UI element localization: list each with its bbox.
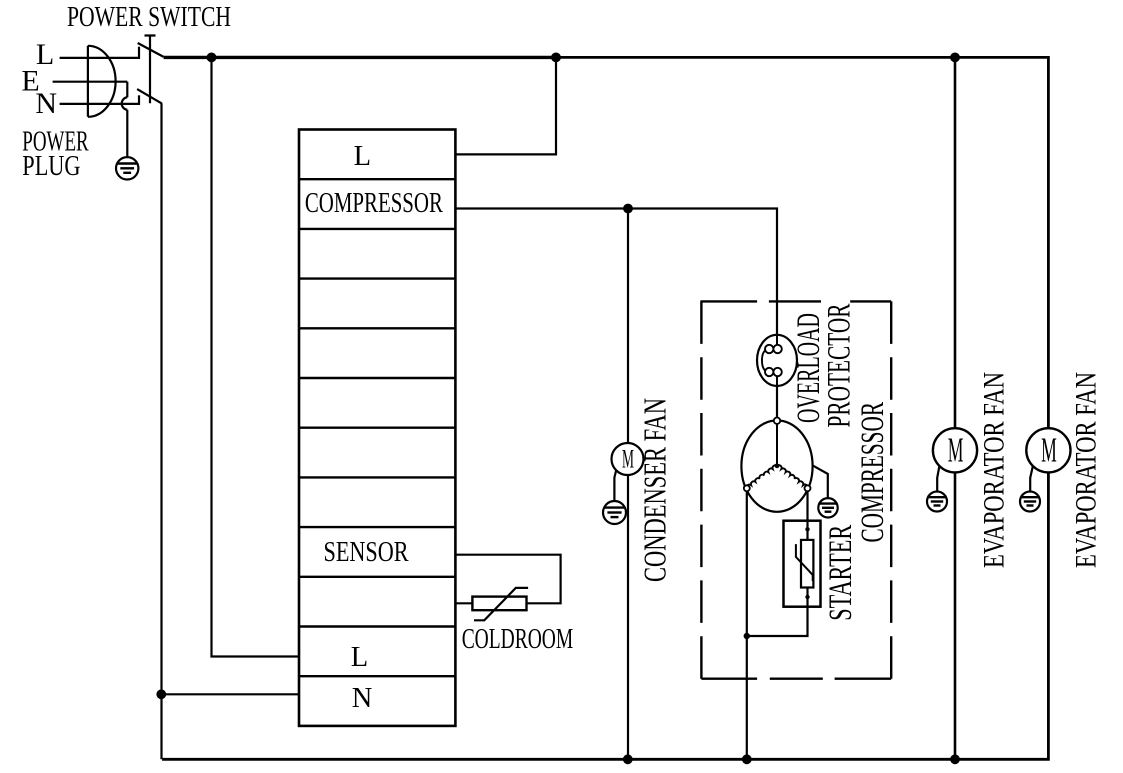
terminal block row dividers	[299, 179, 455, 676]
ground evaporator fan 2	[1020, 492, 1040, 512]
compressor motor right winding	[777, 465, 808, 488]
wire top rail thick segment (switch to L-terminal junction)	[164, 56, 556, 59]
wire starter output to main leg junction	[747, 587, 808, 636]
motor evaporator fan 1	[933, 428, 977, 472]
overload protector internal lead out	[776, 376, 778, 386]
ground condenser fan	[603, 501, 626, 524]
node compressor motor run terminal	[744, 485, 750, 491]
wire evaporator fan 1 lower	[954, 472, 957, 759]
coldroom sensor thermistor strike	[474, 588, 528, 620]
overload protector contact discs	[765, 345, 782, 376]
node junction bottom rail / compressor	[742, 754, 752, 764]
svg-text:M: M	[948, 430, 964, 469]
wire SENSOR row to coldroom thermistor right lead	[455, 555, 560, 604]
wire left vertical N feeder (switch N pole down to bottom rail)	[160, 103, 162, 759]
power switch L pole blade	[138, 43, 164, 57]
svg-text:POWER SWITCH: POWER SWITCH	[67, 2, 231, 33]
starter terminal dot top	[805, 527, 809, 531]
wire top rail right segment + right vertical upper (to evaporator fan 2 motor)	[554, 57, 1048, 428]
svg-text:EVAPORATOR FAN: EVAPORATOR FAN	[1070, 372, 1103, 568]
wire evaporator fan 1 ground branch	[937, 466, 939, 497]
starter PTC body	[801, 540, 813, 588]
svg-text:L: L	[351, 642, 368, 673]
svg-text:COLDROOM: COLDROOM	[462, 624, 574, 655]
overload protector internal lead in	[776, 335, 778, 345]
svg-text:M: M	[1041, 430, 1057, 469]
svg-text:STARTER: STARTER	[823, 525, 859, 621]
wire condenser fan ground branch	[614, 470, 616, 507]
ground power plug earth	[116, 157, 138, 179]
wire compressor case ground branch	[812, 465, 827, 503]
node junction compressor wire / condenser fan	[623, 204, 633, 214]
wire terminal L row up to top rail	[455, 57, 556, 154]
coldroom sensor thermistor body	[472, 597, 526, 611]
wire coldroom thermistor left lead	[455, 602, 473, 604]
svg-text:PROTECTOR: PROTECTOR	[822, 304, 858, 428]
svg-text:M: M	[622, 443, 634, 473]
overload protector bimetal arc	[762, 351, 765, 371]
starter terminal dot bottom	[805, 595, 809, 599]
compressor motor left winding	[747, 465, 777, 488]
starter box	[784, 521, 821, 607]
compressor motor internal lead	[776, 424, 778, 465]
node starter to main leg junction	[744, 633, 750, 639]
power switch N pole fixed contact	[138, 95, 140, 105]
power switch L pole fixed contact	[138, 47, 140, 59]
overload protector outline	[757, 335, 797, 386]
node junction top rail / terminal L	[551, 53, 561, 63]
wire N row lead from junction to terminal block	[161, 693, 299, 695]
node junction top rail / L feeder	[207, 53, 217, 63]
power plug body (D shape)	[88, 46, 116, 117]
node compressor motor top terminal	[774, 418, 780, 424]
svg-text:L: L	[354, 141, 371, 172]
wire compressor main winding left leg down to bottom rail	[746, 491, 748, 759]
terminal block outline	[299, 130, 455, 726]
ground compressor case	[818, 498, 837, 517]
node junction bottom rail / evaporator fan 1	[950, 754, 960, 764]
node junction bottom rail / condenser fan	[623, 754, 633, 764]
svg-text:N: N	[352, 683, 373, 714]
wire overload to motor node	[776, 386, 778, 418]
starter PTC strike	[796, 544, 813, 581]
node compressor motor start terminal	[805, 485, 811, 491]
wire prong E	[53, 81, 128, 83]
power switch actuator bar	[145, 36, 156, 104]
compressor enclosure dashed box right edge	[890, 301, 892, 678]
svg-text:CONDENSER FAN: CONDENSER FAN	[636, 398, 672, 582]
svg-text:N: N	[35, 87, 57, 120]
svg-text:PLUG: PLUG	[22, 151, 80, 182]
node junction top rail / evaporator fan 1	[950, 53, 960, 63]
node junction N feeder / N row	[156, 689, 166, 699]
svg-text:EVAPORATOR FAN: EVAPORATOR FAN	[977, 372, 1010, 568]
svg-text:COMPRESSOR: COMPRESSOR	[855, 402, 891, 543]
svg-text:SENSOR: SENSOR	[324, 537, 409, 568]
ground evaporator fan 1	[927, 492, 947, 512]
wire prong L	[60, 57, 139, 59]
wire prong N	[60, 103, 139, 105]
wire right vertical lower + bottom rail (evaporator fan 2 to neutral rail)	[162, 472, 1048, 759]
power switch N pole blade	[137, 89, 162, 104]
wire COMPRESSOR row to overload protector	[455, 209, 777, 335]
wire L feeder from top rail down to terminal block row L	[212, 57, 300, 656]
motor condenser fan	[612, 443, 644, 475]
compressor enclosure dashed box top edge	[700, 300, 891, 302]
wire condenser fan branch upper	[627, 209, 629, 444]
motor evaporator fan 2	[1026, 428, 1070, 472]
wire evaporator fan 2 ground branch	[1030, 466, 1033, 497]
wire earth drop with jump over N wire	[122, 82, 128, 164]
wire condenser fan branch lower	[627, 475, 629, 760]
svg-text:COMPRESSOR: COMPRESSOR	[305, 188, 443, 219]
compressor enclosure dashed box left edge	[700, 301, 702, 678]
wire compressor start winding leg down into starter	[806, 491, 808, 541]
compressor enclosure dashed box bottom edge	[701, 678, 891, 680]
compressor motor outline	[741, 420, 812, 511]
compressor motor winding apex dot	[775, 463, 780, 468]
wire evaporator fan 1 upper	[954, 57, 957, 428]
